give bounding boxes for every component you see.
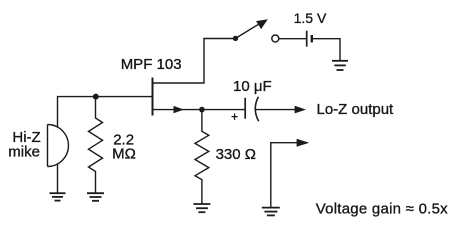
wire drain lead up to switch [153,39,236,84]
arrowhead output return [297,139,310,147]
arrowhead Lo-Z output [295,106,306,114]
ground (under battery) [332,61,348,70]
switch S1 arm arrowhead [256,19,268,29]
node A (gate junction dot) [93,94,99,100]
battery B1 long plate [306,31,308,47]
ground (under R1) [87,193,104,201]
ground (under R2) [193,204,210,212]
wire mike bottom lead [57,164,59,193]
switch S1 arm [236,24,260,39]
capacitor C1 curved plate [255,97,258,121]
switch S1 pivot dot [233,36,238,41]
svg-text:MPF 103: MPF 103 [121,56,182,73]
svg-text:10 μF: 10 μF [233,78,272,95]
svg-text:Lo-Z output: Lo-Z output [317,101,395,118]
ground (under output return) [262,208,280,216]
arrowhead on source lead [174,106,184,113]
transistor Q1 MPF 103 JFET channel bar [152,78,154,116]
svg-text:1.5 V: 1.5 V [294,10,327,26]
wire output return arm [271,143,298,207]
wire source junction to capacitor [202,109,245,111]
capacitor C1 flat plate [244,98,246,119]
wire circle to battery [279,38,306,40]
ground (under mike) [50,193,66,200]
wire source lead [153,109,202,111]
wire gate net: mike top lead and horizontal run to gate [58,97,153,127]
resistor R1 2.2 MΩ [89,97,103,193]
svg-text:Voltage gain ≈ 0.5x: Voltage gain ≈ 0.5x [316,201,448,218]
switch S1 open terminal circle [272,35,279,42]
svg-text:MΩ: MΩ [112,146,136,163]
svg-text:mike: mike [8,144,40,161]
resistor R2 330 Ω [195,110,209,204]
wire output arrow [255,109,295,111]
wire battery to ground corner [312,39,340,61]
battery B1 short plate [311,35,313,42]
microphone MIC Hi-Z mike symbol [48,125,69,167]
svg-text:330 Ω: 330 Ω [216,146,256,163]
node B (source junction dot) [199,107,205,113]
capacitor C1 plus sign [232,114,238,120]
